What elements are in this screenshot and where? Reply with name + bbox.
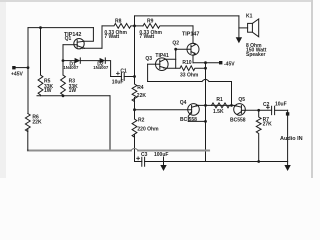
node R7 top (257, 109, 260, 112)
svg-text:7 Watt: 7 Watt (139, 34, 154, 40)
svg-text:33 Ohm: 33 Ohm (180, 72, 199, 78)
svg-text:22K: 22K (137, 93, 147, 99)
svg-text:1.5K: 1.5K (213, 109, 224, 115)
wire lower rail (164, 161, 288, 163)
wire speaker drop (238, 16, 240, 41)
capacitor C1 (111, 72, 135, 81)
svg-text:TIP41: TIP41 (155, 53, 169, 59)
wire hop R2 over rail (131, 148, 138, 150)
transistor Q5 (234, 104, 246, 116)
svg-text:1N4007: 1N4007 (93, 65, 109, 70)
svg-text:R8: R8 (115, 19, 122, 25)
transistor Q1 (63, 39, 85, 50)
node R1 left (204, 104, 207, 107)
svg-text:R1: R1 (216, 97, 223, 103)
wire corner to Q5 base (231, 82, 233, 106)
resistor R8 (102, 24, 143, 29)
node +45V on left rail (27, 66, 30, 69)
terminal +45V (12, 66, 15, 69)
wire bottom rail (28, 149, 209, 151)
wire emitter row (198, 104, 234, 106)
svg-text:R2: R2 (138, 117, 145, 123)
wire R6 to bottom rail (27, 129, 29, 151)
svg-text:C2: C2 (263, 102, 270, 108)
svg-text:C3: C3 (141, 152, 148, 158)
svg-text:Speaker: Speaker (246, 52, 266, 58)
node R3 bottom (62, 94, 65, 97)
wire R8 riser (101, 26, 103, 48)
terminal Audio IN (286, 112, 289, 115)
wire output riser (134, 16, 136, 26)
wire audio in drop (287, 110, 289, 166)
node output R8/R9 (133, 25, 136, 28)
svg-text:Q3: Q3 (145, 56, 152, 62)
svg-text:R9: R9 (147, 19, 154, 25)
svg-text:BC 558: BC 558 (180, 117, 197, 123)
wire R5 riser (40, 28, 42, 75)
transistor Q3 (148, 58, 180, 71)
wire Q5 base to C2 (245, 109, 271, 111)
svg-text:-45V: -45V (224, 62, 235, 68)
wire R5/R3 bottoms (37, 95, 110, 97)
svg-text:Q5: Q5 (238, 97, 245, 103)
ground arrow audio (284, 165, 290, 171)
svg-text:+45V: +45V (11, 71, 23, 77)
node R7 bottom (257, 160, 260, 163)
svg-text:Q2: Q2 (172, 41, 179, 47)
wire output node down to R4 (134, 26, 136, 84)
capacitor C2 (266, 106, 274, 115)
wire R4 to R2 (134, 98, 136, 120)
diode D1 (63, 58, 80, 63)
resistor R2 (132, 119, 137, 137)
svg-text:7 Watt: 7 Watt (104, 34, 119, 40)
svg-text:Q4: Q4 (180, 100, 187, 106)
resistor R7 (256, 110, 261, 161)
resistor R3 (61, 75, 66, 96)
wire R2 down to C3 (135, 134, 142, 161)
svg-text:10uF: 10uF (275, 102, 287, 108)
svg-text:BC558: BC558 (230, 118, 246, 124)
node top rail / R5 riser (39, 26, 42, 29)
wire +45V stub (15, 67, 28, 69)
diode D2 (100, 58, 106, 63)
wire left rail (27, 28, 29, 114)
svg-text:TIP147: TIP147 (182, 32, 199, 38)
wire +45V top rail (28, 27, 93, 29)
wire C2 to audio in (275, 109, 288, 111)
resistor R5 (38, 75, 43, 96)
wire Q1 base vertical (62, 45, 64, 75)
svg-text:100uF: 100uF (154, 152, 168, 158)
svg-text:1W: 1W (69, 88, 77, 94)
node Q4 base line (133, 108, 136, 111)
resistor R10 (180, 66, 206, 71)
speaker K1 (239, 19, 259, 37)
page background (0, 0, 313, 178)
node diode row left (62, 59, 65, 62)
svg-text:R10: R10 (182, 60, 191, 66)
terminal -45V (219, 61, 222, 64)
node R10 right (204, 67, 207, 70)
wire output to speaker (135, 15, 239, 17)
node -45V line x205.5 (204, 61, 207, 64)
ground arrow C3 (160, 157, 166, 171)
transistor Q2 (176, 43, 199, 55)
wire Q4 collector (188, 120, 205, 122)
svg-text:220 Ohm: 220 Ohm (137, 126, 159, 132)
wire long feedback line with hop (148, 79, 232, 81)
resistor R9 (143, 24, 193, 29)
wire D2 to C1 (105, 61, 110, 77)
ground arrow speaker (236, 37, 242, 43)
wire Q2 collector drop (192, 26, 194, 43)
wire Q3 base vertical (147, 64, 149, 81)
transistor Q4 (135, 104, 200, 122)
svg-text:Q1: Q1 (65, 36, 72, 42)
svg-text:27K: 27K (263, 122, 273, 128)
resistor R4 (132, 84, 137, 102)
svg-text:10uF: 10uF (112, 80, 124, 86)
node C1 right (133, 75, 136, 78)
wire vertical x205.5 (205, 63, 207, 161)
node Q4 collector (204, 120, 207, 123)
svg-text:Audio IN: Audio IN (280, 136, 303, 142)
svg-text:1N4007: 1N4007 (63, 65, 79, 70)
wire -45V line (193, 62, 221, 64)
svg-text:22K: 22K (32, 120, 42, 126)
node Q2 base (174, 48, 177, 51)
wire D1-D2 (80, 60, 99, 62)
svg-text:1W: 1W (44, 88, 52, 94)
resistor R6 (25, 114, 30, 132)
resistor R1 (212, 103, 230, 108)
wire x110 to bottom rail (109, 96, 111, 151)
capacitor C3 (137, 157, 164, 166)
node R1 right (230, 104, 233, 107)
svg-text:R4: R4 (137, 85, 144, 91)
svg-text:C1: C1 (120, 68, 127, 74)
svg-text:K1: K1 (246, 14, 253, 20)
wire Q2 emitter drop (192, 55, 194, 63)
wire Q1 emitter (85, 47, 103, 49)
wire Q1 collector drop (84, 28, 93, 42)
wire Q2 base vertical (175, 49, 177, 68)
